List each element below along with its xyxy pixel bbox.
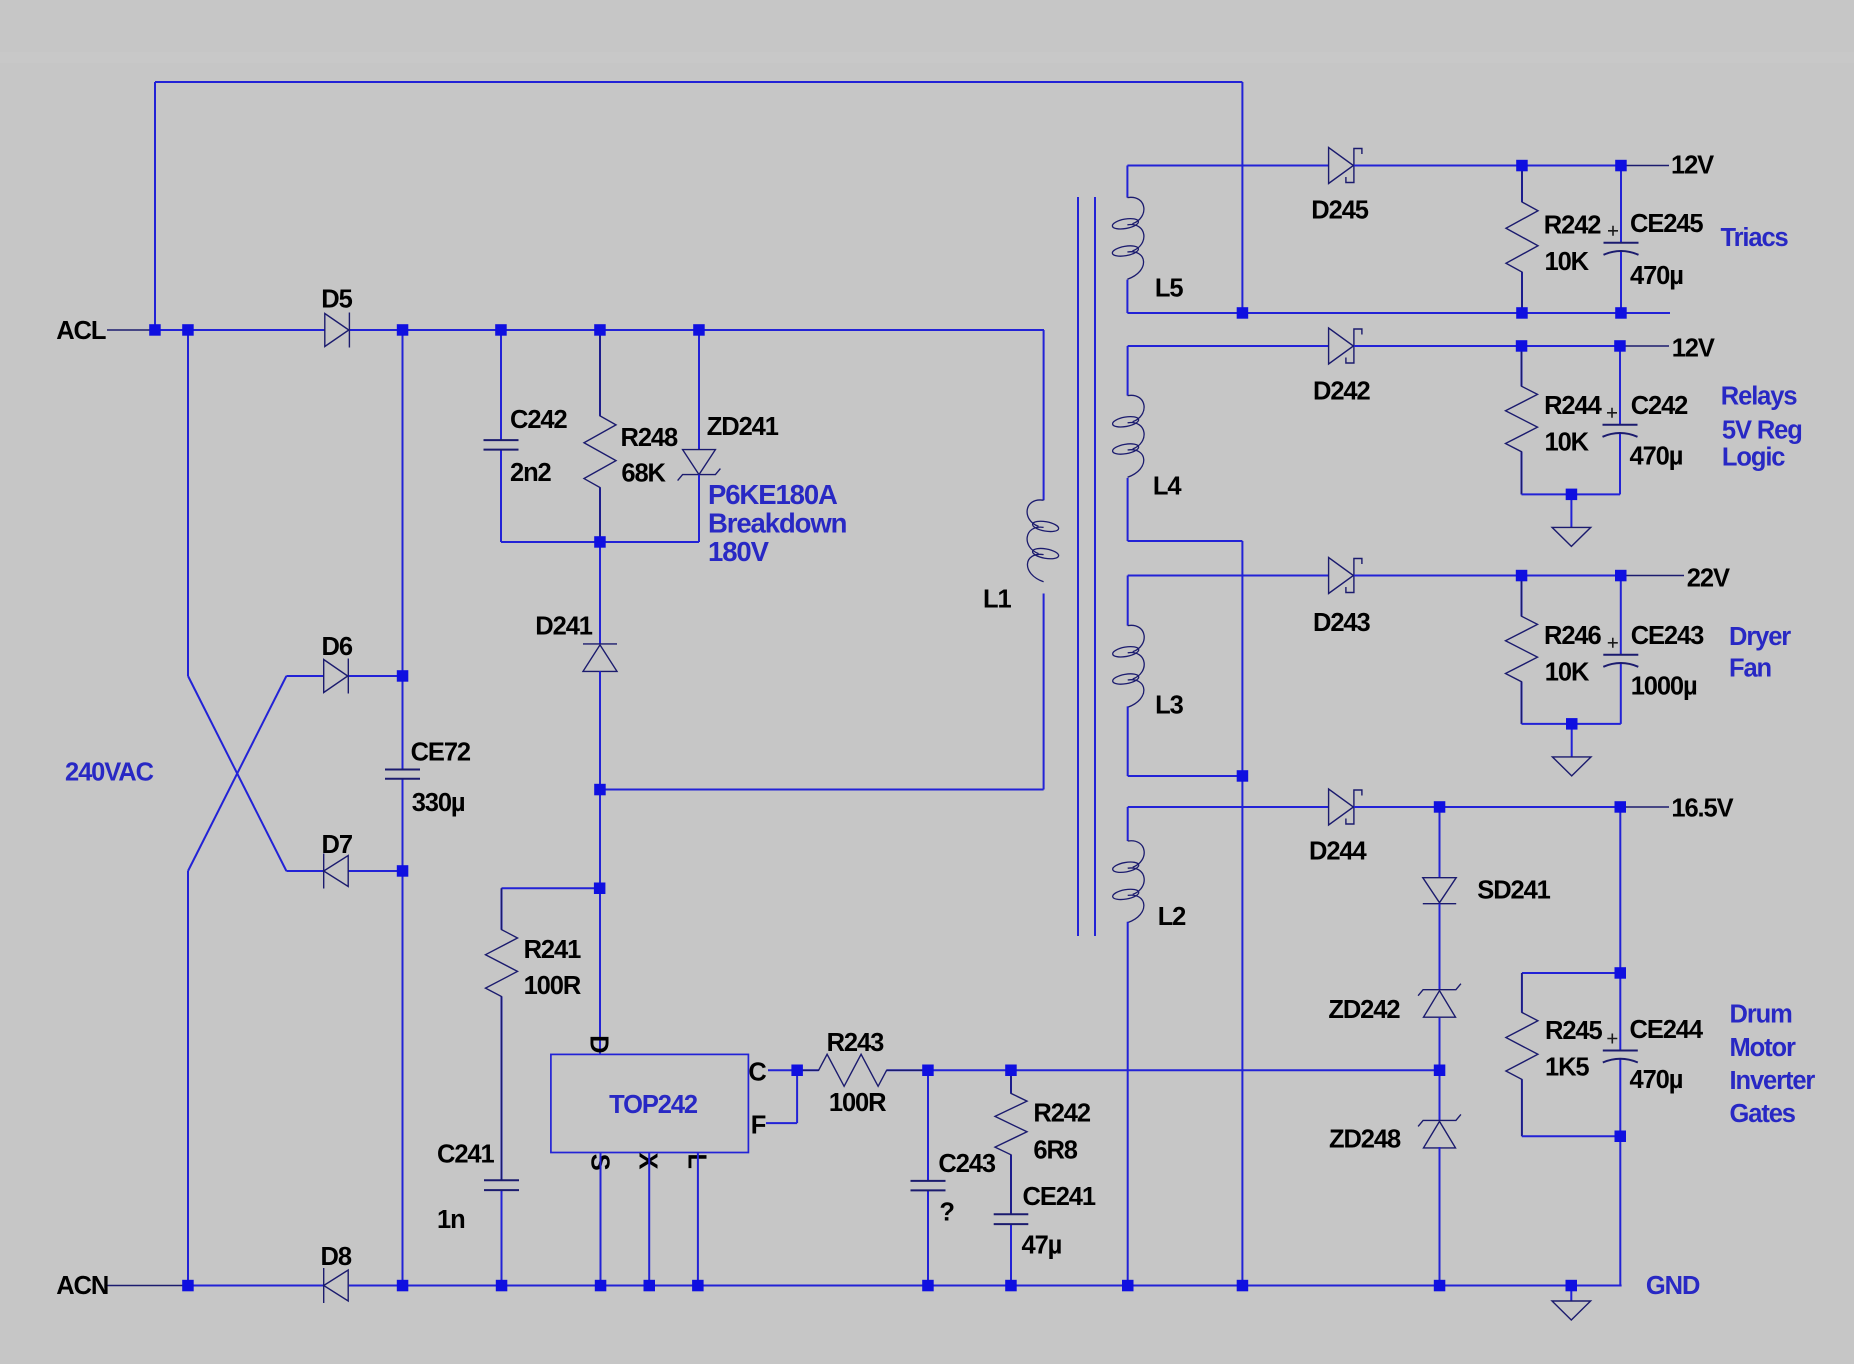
svg-text:Fan: Fan (1729, 655, 1771, 683)
junction sec2 gnd (1566, 489, 1578, 501)
svg-text:100R: 100R (829, 1089, 886, 1117)
svg-text:L2: L2 (1158, 903, 1186, 931)
wire ACL lead stub (107, 329, 155, 331)
svg-text:68K: 68K (621, 460, 666, 488)
diode D243 (1329, 558, 1362, 594)
svg-text:10K: 10K (1545, 248, 1590, 276)
wire 22V stub (1621, 575, 1684, 577)
svg-text:470µ: 470µ (1630, 442, 1683, 470)
wire switch node to L1 bottom (600, 594, 1044, 790)
wire 16V line A (1128, 806, 1329, 808)
svg-text:CE244: CE244 (1630, 1016, 1704, 1044)
wire node to ZD248 (1439, 1070, 1441, 1120)
junction ACN-L2 (1122, 1280, 1134, 1292)
junction L3 return rail (1237, 770, 1249, 782)
svg-text:R246: R246 (1544, 622, 1601, 650)
junction ACN-CE241 (1005, 1280, 1017, 1292)
svg-text:D: D (584, 1035, 612, 1053)
svg-text:L4: L4 (1153, 473, 1182, 501)
junction sec2 R244 top (1516, 340, 1528, 352)
svg-text:ZD242: ZD242 (1328, 996, 1400, 1024)
wire ACL to X upper (188, 330, 324, 871)
svg-text:D244: D244 (1309, 837, 1367, 865)
wire SD241 top (1439, 807, 1441, 878)
svg-text:6R8: 6R8 (1033, 1136, 1077, 1164)
svg-text:D243: D243 (1313, 609, 1370, 637)
svg-text:330µ: 330µ (412, 789, 465, 817)
wire clamp to D241 (599, 542, 601, 644)
wire 12V2 stub (1620, 345, 1669, 347)
junction sec1 R242 bot (1516, 307, 1528, 319)
zener ZD241 P6KE180A (678, 450, 721, 481)
core line right (1094, 197, 1096, 936)
diode D241 clamp (583, 644, 617, 672)
wire D6 to CE72 node (349, 675, 403, 677)
wire CE72 column upper (402, 330, 404, 770)
svg-text:Inverter: Inverter (1730, 1067, 1816, 1095)
junction ACN-X (182, 1280, 194, 1292)
junction zener mid (1434, 1065, 1446, 1077)
svg-text:R241: R241 (524, 936, 581, 964)
wire ACN line main (349, 1285, 1622, 1287)
wire L2 bottom stem (1127, 922, 1129, 1286)
svg-text:Motor: Motor (1730, 1034, 1796, 1062)
junction ACL-toprail (149, 324, 161, 336)
ground main (1552, 1286, 1591, 1321)
svg-text:5V Reg: 5V Reg (1722, 417, 1802, 445)
svg-text:100R: 100R (524, 972, 581, 1000)
diode D244 (1329, 789, 1362, 825)
zener ZD248 (1418, 1114, 1461, 1148)
svg-text:240VAC: 240VAC (65, 758, 154, 786)
wire R241 top (502, 887, 600, 889)
wire snubber bottom (501, 541, 699, 543)
wire CE72 column lower (402, 779, 404, 1286)
wire 22V line B (1354, 575, 1621, 577)
junction ACL-X (182, 324, 194, 336)
junction D7 out (397, 865, 409, 877)
junction C pin (791, 1065, 803, 1077)
svg-text:1K5: 1K5 (1545, 1053, 1589, 1081)
ground section2 (1552, 494, 1591, 546)
wire L3 bottom stem (1127, 706, 1129, 776)
capacitor CE244 470u (1603, 807, 1638, 1286)
resistor R244 10K (1506, 346, 1538, 494)
svg-text:D5: D5 (321, 286, 352, 314)
svg-text:CE241: CE241 (1023, 1183, 1096, 1211)
capacitor CE241 47u (994, 1214, 1029, 1285)
wire control node line (928, 1069, 1440, 1071)
junction ACN-gnd (1566, 1280, 1578, 1292)
inductor L1 primary (1027, 500, 1059, 582)
wire L5 bottom stem (1126, 280, 1128, 313)
svg-text:2n2: 2n2 (510, 459, 552, 487)
wire L1 top stem (1043, 330, 1045, 500)
wire section3 return (1522, 723, 1621, 725)
wire ZD242 to node (1439, 1018, 1441, 1071)
svg-text:470µ: 470µ (1630, 1066, 1683, 1094)
wire L5 top stem (1126, 166, 1128, 198)
junction D6 out (397, 670, 409, 682)
diode D5 (325, 313, 350, 348)
junction R242-6R8 top (1005, 1065, 1017, 1077)
capacitor C243 (911, 1070, 946, 1285)
wire R245 bottom link (1522, 1135, 1620, 1137)
junction sec1 R242 top (1516, 160, 1528, 172)
wire ZD241 column top (698, 330, 700, 450)
resistor R241 100R (486, 888, 518, 1180)
resistor R246 10K (1506, 576, 1538, 724)
wire ZD241 column bottom (698, 475, 700, 542)
wire 12V stub (1621, 165, 1669, 167)
svg-text:C242: C242 (1631, 392, 1688, 420)
junction ACN-C243 (922, 1280, 934, 1292)
ground section3 (1552, 724, 1591, 776)
svg-text:Triacs: Triacs (1721, 224, 1789, 252)
diode D6 (324, 659, 349, 694)
junction sec3 R246 top (1516, 570, 1528, 582)
svg-text:TOP242: TOP242 (609, 1091, 698, 1119)
svg-text:C242: C242 (510, 406, 567, 434)
svg-text:16.5V: 16.5V (1671, 794, 1733, 822)
diode D242 (1329, 328, 1362, 364)
svg-text:Gates: Gates (1730, 1100, 1796, 1128)
svg-text:L3: L3 (1155, 691, 1183, 719)
svg-text:D6: D6 (322, 633, 353, 661)
wire R245 top link (1522, 972, 1620, 974)
svg-text:D241: D241 (535, 613, 592, 641)
wire section1 return (1127, 312, 1670, 314)
wire L3 return (1128, 775, 1243, 777)
junction ACN-L (692, 1280, 704, 1292)
svg-text:Relays: Relays (1721, 383, 1798, 411)
zener ZD242 (1418, 984, 1461, 1018)
svg-text:12V: 12V (1671, 152, 1714, 180)
junction ACN-C241 (496, 1280, 508, 1292)
svg-text:D8: D8 (321, 1243, 352, 1271)
wire pin S (600, 1153, 602, 1286)
svg-text:C243: C243 (938, 1150, 995, 1178)
junction ACN-ZD248 (1434, 1280, 1446, 1292)
junction R245 bot rail (1615, 1131, 1627, 1143)
svg-text:470µ: 470µ (1630, 262, 1683, 290)
capacitor CE72 330u (385, 770, 420, 1286)
svg-text:D245: D245 (1311, 197, 1368, 225)
junction sec2 C242 top (1614, 340, 1626, 352)
svg-text:Breakdown: Breakdown (708, 507, 847, 538)
svg-text:ZD248: ZD248 (1329, 1125, 1401, 1153)
svg-text:CE245: CE245 (1630, 210, 1703, 238)
svg-text:R242: R242 (1033, 1100, 1090, 1128)
svg-text:L5: L5 (1155, 274, 1183, 302)
junction sec1 CE245 top (1615, 160, 1627, 172)
junction sec1 CE245 bot (1615, 307, 1627, 319)
junction ACL-R248 (594, 324, 606, 336)
svg-text:180V: 180V (708, 536, 770, 567)
svg-text:R245: R245 (1545, 1017, 1602, 1045)
svg-text:47µ: 47µ (1022, 1231, 1062, 1259)
svg-text:C241: C241 (437, 1141, 494, 1169)
wire ACL line right (349, 329, 1044, 331)
svg-text:CE243: CE243 (1631, 622, 1704, 650)
capacitor CE245 470u (1604, 166, 1639, 314)
svg-text:GND: GND (1646, 1272, 1700, 1300)
junction ACN-CE72col (397, 1280, 409, 1292)
svg-text:ZD241: ZD241 (707, 413, 779, 441)
svg-text:1000µ: 1000µ (1631, 672, 1697, 700)
inductor L3 (1112, 625, 1144, 707)
capacitor C241 1n (484, 1180, 519, 1285)
svg-text:R243: R243 (827, 1029, 884, 1057)
inductor L2 (1112, 841, 1144, 923)
junction ACN-rail (1237, 1280, 1249, 1292)
junction ACN-S (595, 1280, 607, 1292)
junction ACL-ZD241 (693, 324, 705, 336)
diode D245 (1329, 148, 1362, 184)
wire section2 return (1522, 493, 1621, 495)
junction clamp bottom (594, 536, 606, 548)
svg-text:1n: 1n (437, 1206, 465, 1234)
wire 16V line B (1354, 806, 1620, 808)
wire secondary return rail (1241, 541, 1243, 1286)
junction ACL-C242 (495, 324, 507, 336)
junction sec3 gnd (1566, 718, 1578, 730)
wire ACN to X lower (188, 676, 324, 1286)
inductor L5 (1112, 197, 1144, 279)
svg-text:D242: D242 (1313, 377, 1370, 405)
svg-text:ACN: ACN (56, 1272, 108, 1300)
junction ACL-CE72col (397, 324, 409, 336)
svg-text:CE72: CE72 (411, 739, 471, 767)
subtle light band (0, 52, 1854, 63)
svg-text:R248: R248 (621, 424, 678, 452)
svg-text:22V: 22V (1687, 565, 1730, 593)
svg-text:L: L (682, 1153, 710, 1169)
svg-text:S: S (585, 1154, 613, 1171)
svg-text:Drum: Drum (1730, 1000, 1793, 1028)
resistor R242 6R8 (995, 1070, 1027, 1214)
junction ACN-Xpin (644, 1280, 656, 1292)
wire 22V line A (1128, 575, 1329, 577)
capacitor C242 470u out (1603, 346, 1638, 494)
wire ZD248 to gnd (1439, 1147, 1441, 1286)
wire L4 bottom to rail (1128, 540, 1243, 542)
inductor L4 (1112, 395, 1144, 477)
wire 12V2 line A (1128, 345, 1329, 347)
junction C243 top (922, 1065, 934, 1077)
wire 12V line A (1127, 165, 1328, 167)
wire SD241 to ZD242 (1439, 904, 1441, 990)
svg-text:L1: L1 (983, 586, 1011, 614)
wire ACN lead stub (107, 1285, 188, 1287)
wire pin F (766, 1070, 797, 1123)
svg-text:X: X (634, 1152, 662, 1169)
core line left (1077, 197, 1079, 936)
junction sec1 return rail (1237, 307, 1249, 319)
wire L4 bottom stem (1127, 478, 1129, 541)
svg-text:Logic: Logic (1722, 443, 1785, 471)
svg-text:?: ? (939, 1198, 954, 1226)
wire ACL line left (155, 329, 325, 331)
wire ACN line left (188, 1285, 324, 1287)
wire L4 top stem (1127, 346, 1129, 396)
junction sec4 SD241 top (1434, 801, 1446, 813)
svg-text:F: F (751, 1112, 766, 1140)
svg-text:ACL: ACL (56, 317, 106, 345)
resistor R242 10K (1506, 166, 1538, 314)
svg-text:10K: 10K (1545, 659, 1590, 687)
wire pin X (648, 1153, 650, 1286)
resistor R245 1K5 (1506, 973, 1538, 1136)
diode D7 (324, 854, 349, 889)
svg-text:C: C (748, 1058, 766, 1086)
junction R241 top (594, 883, 606, 895)
svg-text:D7: D7 (322, 831, 353, 859)
wire L3 top stem (1127, 576, 1129, 626)
junction sec3 CE243 top (1615, 570, 1627, 582)
wire D7 to CE72 node (348, 870, 403, 872)
wire top snubber rail (155, 82, 1242, 330)
resistor R243 100R (797, 1054, 928, 1086)
svg-text:SD241: SD241 (1477, 876, 1550, 904)
diode SD241 (1423, 878, 1456, 904)
svg-text:R244: R244 (1544, 392, 1602, 420)
wire pin C (768, 1069, 797, 1071)
junction R245 top rail (1615, 967, 1627, 979)
svg-text:12V: 12V (1672, 335, 1715, 363)
wire D241 to switch node (599, 671, 601, 1054)
svg-text:P6KE180A: P6KE180A (708, 479, 838, 510)
svg-text:Dryer: Dryer (1729, 623, 1791, 651)
wire L2 top stem (1127, 807, 1129, 841)
wire 12V line B (1354, 165, 1621, 167)
diode D8 (324, 1268, 349, 1303)
junction switch node (594, 784, 606, 796)
capacitor C242 snubber 2n2 (484, 330, 519, 542)
capacitor CE243 1000u (1603, 576, 1638, 724)
wire 12V2 line B (1354, 345, 1620, 347)
svg-text:10K: 10K (1545, 429, 1590, 457)
junction sec4 CE244 top (1615, 801, 1627, 813)
svg-text:R242: R242 (1544, 212, 1601, 240)
resistor R248 68K (584, 330, 616, 542)
ic U1 TOP242 box (551, 1054, 749, 1152)
wire 16V stub (1620, 806, 1669, 808)
wire pin L (697, 1153, 699, 1286)
